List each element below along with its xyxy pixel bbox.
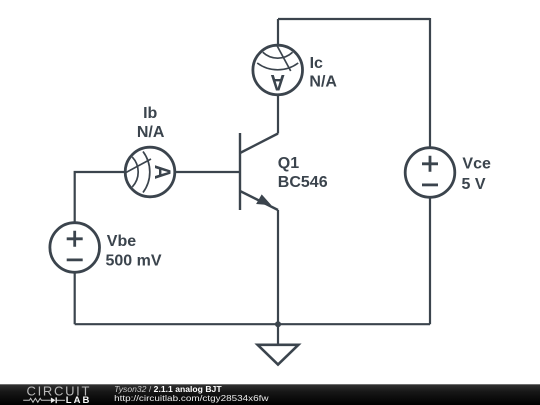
node: ground junction dot bbox=[275, 321, 281, 327]
svg-text:Q1: Q1 bbox=[278, 155, 299, 172]
svg-text:500 mV: 500 mV bbox=[106, 252, 162, 269]
footer title line bbox=[114, 384, 222, 394]
label Vbe / 500 mV bbox=[106, 233, 162, 269]
svg-text:Vbe: Vbe bbox=[107, 233, 136, 250]
ammeter AM1 (Ib) bbox=[125, 147, 175, 197]
transistor Q1 base bar bbox=[239, 133, 241, 210]
ground symbol bbox=[258, 345, 299, 365]
svg-text:Ib: Ib bbox=[143, 105, 157, 122]
wire: emitter vertical (Q1 to ground node) bbox=[277, 210, 279, 324]
svg-text:Ic: Ic bbox=[310, 55, 323, 72]
voltage source Vce bbox=[405, 148, 455, 198]
wire: ground stub bbox=[277, 324, 279, 345]
logo diode bbox=[51, 397, 57, 403]
svg-text:Vce: Vce bbox=[462, 155, 491, 172]
svg-text:http://circuitlab.com/ctgy2853: http://circuitlab.com/ctgy28534x6fw bbox=[114, 393, 269, 403]
transistor Q1 emitter diagonal bbox=[240, 191, 278, 210]
svg-text:A: A bbox=[150, 165, 175, 180]
footer url line bbox=[114, 393, 269, 403]
logo wire after diode bbox=[57, 399, 65, 401]
label Ic / N/A bbox=[309, 55, 337, 90]
svg-text:BC546: BC546 bbox=[278, 174, 328, 191]
wire: bottom horizontal bbox=[75, 323, 430, 325]
svg-text:N/A: N/A bbox=[309, 74, 337, 91]
logo CIRCUIT text bbox=[27, 383, 92, 398]
wire: Vbe bottom stem bbox=[74, 272, 76, 324]
footer bar bbox=[0, 384, 540, 405]
svg-text:A: A bbox=[270, 70, 285, 95]
wire: Ib meter to base bbox=[175, 171, 241, 173]
logo LAB text bbox=[66, 395, 92, 405]
svg-text:N/A: N/A bbox=[137, 124, 165, 141]
wire: collector vertical (Ic meter to Q1) bbox=[277, 95, 279, 134]
ammeter AM2 (Ic) bbox=[253, 45, 303, 95]
wire: top horizontal bbox=[278, 18, 430, 20]
wire: Ic top stem bbox=[277, 19, 279, 46]
wire: Vce bottom to bottom-right corner bbox=[429, 198, 431, 325]
label Q1 / BC546 bbox=[278, 155, 328, 191]
voltage source Vbe bbox=[50, 223, 100, 273]
transistor Q1 collector diagonal bbox=[240, 134, 278, 154]
label Vce / 5 V bbox=[462, 155, 491, 193]
logo wire with resistor zigzag bbox=[23, 398, 51, 402]
wire: right top vertical to Vce bbox=[429, 18, 431, 148]
label Ib / N/A bbox=[137, 105, 165, 141]
svg-text:LAB: LAB bbox=[66, 395, 92, 405]
wire: Vbe top to corner to Ib meter bbox=[75, 172, 126, 223]
svg-text:5 V: 5 V bbox=[462, 176, 486, 193]
transistor Q1 emitter arrow bbox=[256, 194, 271, 205]
